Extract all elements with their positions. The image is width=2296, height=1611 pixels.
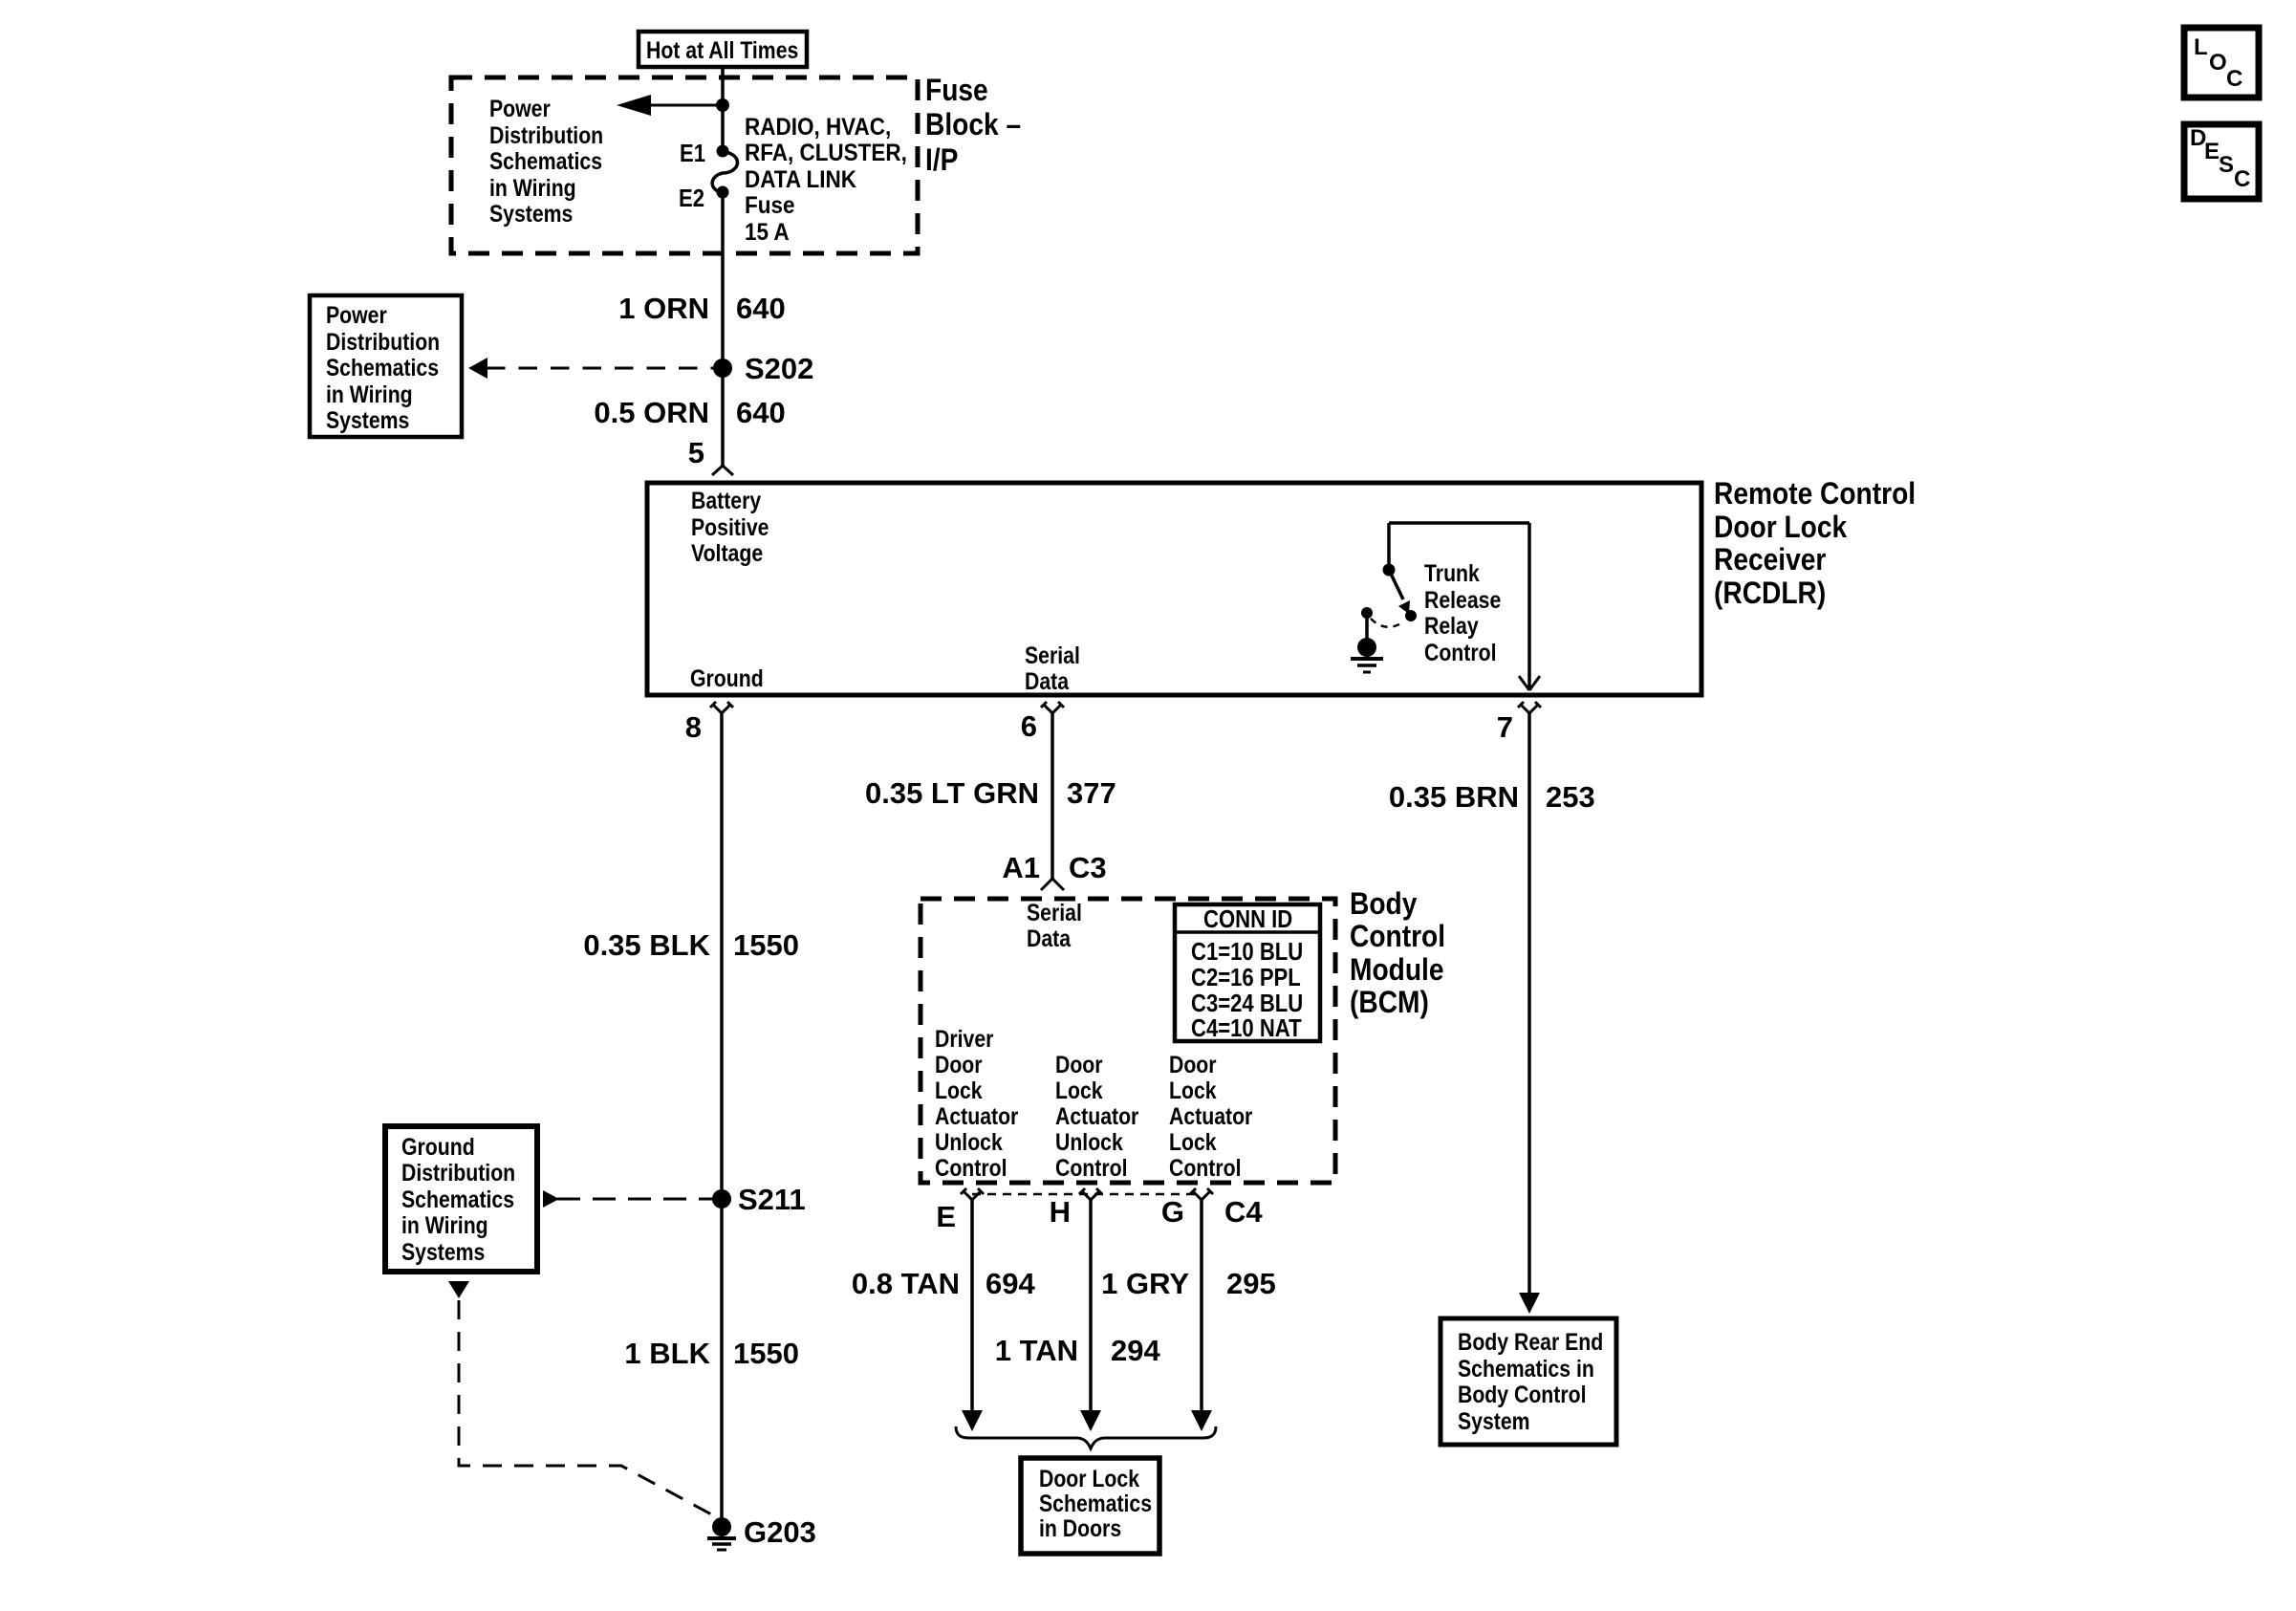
relay ground symbol xyxy=(1351,659,1383,672)
svg-text:Unlock: Unlock xyxy=(1055,1128,1123,1155)
svg-text:Actuator: Actuator xyxy=(1169,1102,1252,1129)
svg-text:Hot at All Times: Hot at All Times xyxy=(646,36,798,63)
wire label 1 GRY 295 xyxy=(1101,1267,1276,1300)
reference text Power Distribution Schematics in Wiring Systems (inside fuse block) xyxy=(489,95,603,227)
CONN ID table xyxy=(1175,904,1320,1042)
svg-text:CONN ID: CONN ID xyxy=(1203,905,1292,933)
pin label A1 C3 xyxy=(1002,851,1106,884)
svg-text:Schematics: Schematics xyxy=(326,354,439,381)
dashed connector line under BCM xyxy=(972,1193,1202,1196)
wire label 0.5 ORN 640 xyxy=(594,396,785,429)
svg-text:Ground: Ground xyxy=(401,1133,475,1160)
arrowhead at pin 7 inside box xyxy=(1519,676,1540,690)
svg-text:Control: Control xyxy=(1169,1154,1242,1181)
svg-text:S202: S202 xyxy=(745,352,813,385)
svg-text:0.35 LT GRN: 0.35 LT GRN xyxy=(865,776,1039,810)
svg-text:DATA LINK: DATA LINK xyxy=(745,166,856,193)
svg-text:640: 640 xyxy=(736,292,786,325)
svg-text:Schematics in: Schematics in xyxy=(1458,1355,1594,1382)
svg-text:RADIO, HVAC,: RADIO, HVAC, xyxy=(745,114,891,141)
label Body Control Module (BCM) xyxy=(1350,887,1445,1019)
svg-text:Body Rear End: Body Rear End xyxy=(1458,1328,1603,1355)
relay pivot dot xyxy=(1383,564,1396,577)
svg-text:1550: 1550 xyxy=(733,1337,799,1370)
pin G connector symbol xyxy=(1190,1188,1213,1200)
label Hot at All Times xyxy=(639,32,807,67)
svg-text:E1: E1 xyxy=(680,140,705,167)
svg-text:C2=16 PPL: C2=16 PPL xyxy=(1191,964,1301,991)
relay ground ball xyxy=(1357,638,1376,657)
relay mechanical linkage dashed xyxy=(1371,619,1404,627)
svg-text:1 BLK: 1 BLK xyxy=(624,1337,710,1370)
wire label 0.35 BRN 253 xyxy=(1389,780,1595,814)
svg-text:Body: Body xyxy=(1350,887,1418,921)
fuse element (RADIO HVAC RFA CLUSTER DATA LINK Fuse 15A) xyxy=(712,152,737,193)
svg-text:Data: Data xyxy=(1027,925,1072,951)
svg-text:RFA, CLUSTER,: RFA, CLUSTER, xyxy=(745,140,907,166)
svg-text:5: 5 xyxy=(688,436,704,469)
svg-text:I/P: I/P xyxy=(925,143,958,177)
svg-text:Door Lock: Door Lock xyxy=(1714,511,1847,544)
wire label 1 ORN 640 xyxy=(618,292,785,325)
reference box Body Rear End Schematics in Body Control System xyxy=(1440,1318,1616,1445)
svg-text:0.8 TAN: 0.8 TAN xyxy=(852,1267,960,1300)
splice S202 dashed reference arrow xyxy=(468,358,714,379)
svg-text:H: H xyxy=(1050,1195,1071,1229)
svg-text:C3=24 BLU: C3=24 BLU xyxy=(1191,990,1303,1017)
label Remote Control Door Lock Receiver (RCDLR) xyxy=(1714,477,1916,610)
label Fuse Block - I/P xyxy=(925,74,1021,177)
svg-text:0.5 ORN: 0.5 ORN xyxy=(594,396,709,429)
svg-text:A1: A1 xyxy=(1002,851,1040,884)
svg-text:in Wiring: in Wiring xyxy=(326,381,413,407)
ground reference dashed path xyxy=(448,1281,715,1516)
label Serial Data (BCM) xyxy=(1027,899,1082,951)
svg-text:Lock: Lock xyxy=(935,1077,983,1103)
trunk release relay wire from top xyxy=(1389,521,1529,525)
svg-text:Remote Control: Remote Control xyxy=(1714,477,1916,511)
fuse terminal E2 dot xyxy=(717,186,729,199)
svg-text:E: E xyxy=(2204,139,2220,164)
svg-text:1550: 1550 xyxy=(733,928,799,962)
pin 5 connector symbol xyxy=(712,466,733,475)
svg-text:in Wiring: in Wiring xyxy=(401,1211,488,1238)
wire BCM pin H xyxy=(1089,1200,1093,1412)
svg-text:7: 7 xyxy=(1497,710,1513,744)
pin 6 connector symbol xyxy=(1041,702,1064,713)
RCDLR module box xyxy=(647,483,1701,695)
svg-text:Fuse: Fuse xyxy=(925,74,988,107)
wire fuse output down to pin 5 xyxy=(721,192,725,466)
svg-text:E2: E2 xyxy=(679,185,704,212)
svg-text:G: G xyxy=(1161,1195,1184,1229)
svg-text:Positive: Positive xyxy=(691,513,769,540)
svg-text:Voltage: Voltage xyxy=(691,539,763,566)
junction dot on hot feed xyxy=(716,98,729,112)
svg-text:Trunk: Trunk xyxy=(1424,559,1480,586)
svg-text:6: 6 xyxy=(1021,709,1037,743)
splice S211 dashed reference arrow xyxy=(543,1190,714,1208)
relay armature dot xyxy=(1361,607,1373,619)
svg-text:S211: S211 xyxy=(738,1183,806,1216)
wire label 0.35 LT GRN 377 xyxy=(865,776,1116,810)
label Door Lock Actuator Lock Control xyxy=(1169,1051,1252,1181)
svg-text:Driver: Driver xyxy=(935,1025,993,1052)
svg-text:Distribution: Distribution xyxy=(401,1159,515,1186)
ground G203 dot xyxy=(712,1517,731,1536)
svg-text:694: 694 xyxy=(986,1267,1035,1300)
svg-text:Schematics: Schematics xyxy=(1039,1490,1152,1516)
svg-text:Fuse: Fuse xyxy=(745,192,794,219)
DESC legend box xyxy=(2184,124,2259,199)
svg-text:Ground: Ground xyxy=(690,664,764,691)
svg-text:Serial: Serial xyxy=(1025,642,1080,668)
ground wire pin 8 to G203 xyxy=(720,713,724,1520)
fuse value text xyxy=(745,114,907,246)
pin 8 connector symbol xyxy=(710,702,733,713)
svg-text:294: 294 xyxy=(1111,1334,1160,1367)
relay coil feed vertical xyxy=(1387,523,1391,566)
reference box Door Lock Schematics in Doors xyxy=(1021,1458,1159,1554)
fuse terminal E1 dot xyxy=(717,145,729,158)
reference box Ground Distribution Schematics in Wiring Systems xyxy=(385,1126,537,1272)
svg-text:Power: Power xyxy=(326,301,387,328)
arrowhead wire E xyxy=(962,1410,983,1431)
svg-text:1 GRY: 1 GRY xyxy=(1101,1267,1189,1300)
trunk release relay control wire to pin 7 xyxy=(1527,523,1531,690)
svg-text:295: 295 xyxy=(1226,1267,1276,1300)
svg-text:C4: C4 xyxy=(1224,1195,1263,1229)
relay switch arm with arrow xyxy=(1391,574,1410,614)
svg-text:O: O xyxy=(2209,50,2227,76)
fuse block I/P dashed box xyxy=(451,77,918,253)
label Door Lock Actuator Unlock Control xyxy=(1055,1051,1138,1181)
svg-text:Receiver: Receiver xyxy=(1714,543,1827,577)
svg-text:1 TAN: 1 TAN xyxy=(995,1334,1078,1367)
svg-text:C: C xyxy=(2226,66,2242,92)
brace xyxy=(956,1426,1216,1448)
wire hot feed from Hot at All Times to fuse E1 xyxy=(721,67,725,151)
label Driver Door Lock Actuator Unlock Control xyxy=(935,1025,1018,1181)
arrowhead trunk release wire xyxy=(1519,1293,1540,1314)
svg-text:Module: Module xyxy=(1350,953,1444,987)
svg-text:Block –: Block – xyxy=(925,108,1021,142)
reference box Power Distribution Schematics in Wiring Systems xyxy=(310,295,462,437)
svg-text:0.35 BLK: 0.35 BLK xyxy=(583,928,710,962)
svg-text:Door: Door xyxy=(1169,1051,1217,1078)
label Trunk Release Relay Control xyxy=(1424,559,1501,665)
label Battery Positive Voltage xyxy=(691,487,769,566)
wire BCM pin G xyxy=(1200,1200,1203,1412)
svg-text:640: 640 xyxy=(736,396,786,429)
svg-text:Lock: Lock xyxy=(1055,1077,1103,1103)
svg-text:System: System xyxy=(1458,1407,1530,1434)
svg-text:Actuator: Actuator xyxy=(1055,1102,1138,1129)
svg-text:Distribution: Distribution xyxy=(489,121,603,148)
svg-text:C4=10 NAT: C4=10 NAT xyxy=(1191,1014,1302,1042)
ground G203 symbol xyxy=(707,1538,736,1550)
svg-text:Serial: Serial xyxy=(1027,899,1082,925)
svg-text:1 ORN: 1 ORN xyxy=(618,292,709,325)
svg-text:377: 377 xyxy=(1067,776,1116,810)
svg-text:Door: Door xyxy=(935,1051,983,1078)
svg-text:Control: Control xyxy=(1350,920,1445,953)
wire BCM pin E xyxy=(970,1200,974,1412)
svg-text:L: L xyxy=(2194,34,2208,60)
splice S202 dot xyxy=(713,359,732,378)
svg-text:C1=10 BLU: C1=10 BLU xyxy=(1191,938,1303,966)
BCM dashed box xyxy=(921,899,1335,1183)
svg-text:S: S xyxy=(2219,152,2234,178)
svg-text:E: E xyxy=(936,1200,956,1233)
svg-text:Data: Data xyxy=(1025,667,1070,694)
svg-text:C: C xyxy=(2234,166,2250,192)
svg-text:G203: G203 xyxy=(744,1515,816,1549)
svg-text:(RCDLR): (RCDLR) xyxy=(1714,577,1826,610)
wire label 1 TAN 294 xyxy=(995,1334,1161,1367)
svg-text:Body Control: Body Control xyxy=(1458,1381,1586,1407)
relay contact dot xyxy=(1405,610,1417,621)
svg-text:in Doors: in Doors xyxy=(1039,1514,1121,1541)
svg-text:C3: C3 xyxy=(1069,851,1107,884)
svg-text:Door Lock: Door Lock xyxy=(1039,1465,1139,1491)
arrowhead wire H xyxy=(1080,1410,1101,1431)
svg-text:Unlock: Unlock xyxy=(935,1128,1003,1155)
svg-text:Distribution: Distribution xyxy=(326,328,440,355)
svg-text:Schematics: Schematics xyxy=(489,147,602,174)
svg-text:Systems: Systems xyxy=(401,1238,485,1265)
label Serial Data (RCDLR pin 6) xyxy=(1025,642,1080,694)
svg-text:Systems: Systems xyxy=(489,200,573,227)
svg-text:Release: Release xyxy=(1424,586,1501,613)
svg-text:(BCM): (BCM) xyxy=(1350,986,1429,1019)
svg-text:Battery: Battery xyxy=(691,487,761,513)
svg-text:Relay: Relay xyxy=(1424,612,1479,639)
pin H connector symbol xyxy=(1079,1188,1102,1200)
svg-text:253: 253 xyxy=(1546,780,1595,814)
svg-text:Door: Door xyxy=(1055,1051,1103,1078)
trunk release wire pin 7 down xyxy=(1527,713,1531,1293)
BCM A1 connector symbol xyxy=(1041,879,1064,890)
svg-text:Control: Control xyxy=(935,1154,1007,1181)
svg-text:Power: Power xyxy=(489,95,551,121)
serial data wire pin 6 to BCM A1 xyxy=(1051,713,1054,879)
wire label 0.35 BLK 1550 xyxy=(583,928,799,962)
svg-text:15 A: 15 A xyxy=(745,219,790,246)
wire label 1 BLK 1550 xyxy=(624,1337,799,1370)
svg-text:Control: Control xyxy=(1424,639,1497,665)
wire label 0.8 TAN 694 xyxy=(852,1267,1036,1300)
svg-text:Schematics: Schematics xyxy=(401,1186,514,1212)
LOC legend box xyxy=(2184,28,2259,98)
svg-text:8: 8 xyxy=(685,710,702,744)
svg-text:Systems: Systems xyxy=(326,406,409,433)
splice S211 dot xyxy=(712,1189,731,1208)
svg-text:0.35 BRN: 0.35 BRN xyxy=(1389,780,1519,814)
svg-text:Actuator: Actuator xyxy=(935,1102,1018,1129)
relay armature stem xyxy=(1365,617,1369,639)
svg-text:Control: Control xyxy=(1055,1154,1128,1181)
svg-text:in Wiring: in Wiring xyxy=(489,174,576,201)
pin 7 connector symbol xyxy=(1518,702,1541,713)
svg-text:Lock: Lock xyxy=(1169,1077,1217,1103)
pin E connector symbol xyxy=(961,1188,984,1200)
svg-text:Lock: Lock xyxy=(1169,1128,1217,1155)
wire branch to power distribution (arrow left) xyxy=(617,95,723,116)
arrowhead wire G xyxy=(1191,1410,1212,1431)
